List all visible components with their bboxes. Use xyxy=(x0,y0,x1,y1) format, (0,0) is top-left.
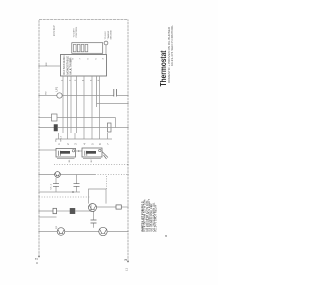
diode D1 body xyxy=(116,205,121,209)
wire U1 pin 3 run xyxy=(70,76,72,133)
svg-text:10-13-474 SER P CONTROL: 10-13-474 SER P CONTROL xyxy=(170,24,174,66)
wire Q2 base link xyxy=(93,212,95,228)
wire U1 pin 2 run xyxy=(67,76,69,133)
wire square to lower component xyxy=(96,206,116,208)
svg-text:24 V SUP: 24 V SUP xyxy=(53,25,56,36)
resistor R7 small box near pins bottom xyxy=(108,123,112,132)
wire long branch x157.5 to bottom rail xyxy=(58,127,129,129)
relay K2 coil dark bar xyxy=(86,151,96,154)
wire feedback square xyxy=(89,189,107,204)
wire to capacitor C2 xyxy=(55,178,57,192)
wire sensor branch from top rail xyxy=(39,95,57,97)
capacitor K1 plates xyxy=(59,151,61,156)
wire U1 pin 7 run xyxy=(99,76,101,133)
wire branch x93 from top rail xyxy=(39,191,80,193)
relay K2 side wire xyxy=(83,158,101,160)
wire transistor branch from top rail xyxy=(39,174,55,176)
svg-text:TRANSF: TRANSF xyxy=(107,30,110,39)
wire vertical bus x167.5 xyxy=(57,117,116,119)
contact circle K2 xyxy=(99,149,101,151)
indicator circle P2 xyxy=(104,41,108,45)
relay K1 side wire xyxy=(57,158,75,160)
switch S1 element 4 xyxy=(85,44,88,51)
resistor R1 box xyxy=(53,208,57,213)
switch S1 element 2 xyxy=(77,44,80,51)
wire U1 pin 6 run xyxy=(91,76,93,133)
transistor Q2 xyxy=(57,228,65,236)
wire right edge connecting rails xyxy=(39,19,128,21)
svg-text:a: a xyxy=(164,235,168,237)
contact arrow below K2 xyxy=(102,152,108,160)
wire U1 pin 4 run xyxy=(76,76,78,133)
svg-text:TO 24 V: TO 24 V xyxy=(105,31,107,40)
svg-text:TP1 2: TP1 2 xyxy=(61,135,63,142)
svg-text:SECOND: SECOND xyxy=(111,30,113,40)
switch bank S1 box xyxy=(72,43,103,54)
wire branch x181 to bottom rail xyxy=(97,103,129,105)
sensor circle P1 xyxy=(57,93,62,98)
wire D1 to bottom rail xyxy=(121,206,128,208)
svg-text:LP1: LP1 xyxy=(54,86,58,91)
node terminal 2 top-left rail end xyxy=(38,256,40,258)
wire sensor branch to bottom rail xyxy=(62,95,128,97)
capacitor C1 plates xyxy=(91,220,97,223)
resistor R4 dark box xyxy=(54,125,58,132)
wire relay branch from top rail xyxy=(39,149,56,151)
svg-text:TO LIMIT: TO LIMIT xyxy=(73,28,75,38)
svg-text:K1 24 V SPDT RELAY: K1 24 V SPDT RELAY xyxy=(155,204,158,231)
svg-text:Thermostat: Thermostat xyxy=(159,50,168,86)
wire branch x68 from top rail xyxy=(39,216,57,218)
transistor Q1 xyxy=(55,172,61,178)
wire Q1 dotted to bottom rail xyxy=(95,174,128,176)
wire Q2 down xyxy=(65,231,99,233)
connector J1 pin stub 7 xyxy=(107,133,109,139)
wire horizontal into U1 pin xyxy=(96,76,98,107)
transistor Q4 xyxy=(89,204,97,212)
wire dotted branch x88 xyxy=(39,196,90,198)
connector J1 pin stub 6 xyxy=(99,133,101,139)
wire U1 to indicator circle xyxy=(105,45,107,54)
wire U1 pin to top rail xyxy=(39,65,61,67)
resistor R5 box xyxy=(52,114,58,121)
wire top rail xyxy=(38,20,40,258)
wire U1 pin 5 run xyxy=(83,76,85,133)
resistor R2 box xyxy=(70,208,75,213)
connector J1 pin stub 4 xyxy=(83,133,85,139)
wire bottom rail xyxy=(127,20,129,263)
relay K1 box xyxy=(56,148,76,157)
connector J1 pin stub 1 xyxy=(58,133,60,139)
connector J1 spine xyxy=(56,138,112,140)
wire K1 to K2 xyxy=(76,150,83,152)
wire branch x53.5 from top rail xyxy=(39,231,57,233)
svg-text:C5 .1: C5 .1 xyxy=(51,183,53,189)
wire R1 to R2 xyxy=(57,210,71,212)
node junction on x93 xyxy=(72,191,74,193)
switch S1 element 3 xyxy=(81,44,84,51)
wire long branch x157.5 from top rail xyxy=(39,127,54,129)
wire branch x74 from top rail xyxy=(39,210,53,212)
connector J1 pin stub 2 xyxy=(67,133,69,139)
node terminal 3 bottom-left rail end xyxy=(127,261,129,263)
op-amp U1 box xyxy=(61,55,107,77)
svg-text:CONTROL: CONTROL xyxy=(76,26,78,37)
capacitor C2 plates xyxy=(53,184,59,187)
relay K2 box xyxy=(82,148,102,157)
switch S1 element 1 xyxy=(73,44,76,51)
wire stub rail to R5 xyxy=(39,117,52,119)
wire Q1 down xyxy=(60,174,95,176)
wire U1 pin 1 run xyxy=(62,76,64,133)
wire jog bus bottom xyxy=(115,118,117,128)
capacitor C4 plates xyxy=(114,89,117,97)
wire to capacitor C3 xyxy=(76,175,78,193)
node K1-K2 junction xyxy=(78,150,80,152)
node dot left of terminal 2 xyxy=(36,262,38,264)
rail junction dots xyxy=(38,65,128,232)
transistor Q3 xyxy=(99,227,107,235)
connector J1 pin stub 5 xyxy=(91,133,93,139)
wire dotted x120.5 xyxy=(54,164,128,166)
contact circle K1 xyxy=(72,150,74,152)
wire Q3 to bottom rail xyxy=(107,231,128,233)
capacitor C3 plates xyxy=(74,184,80,187)
capacitor K2 plates xyxy=(85,151,87,156)
wire dashed link to x110 xyxy=(106,175,108,189)
connector J1 pin stub 3 xyxy=(74,133,76,139)
relay K1 coil dark bar xyxy=(60,151,70,154)
wire R2 down to bridge xyxy=(75,204,91,211)
